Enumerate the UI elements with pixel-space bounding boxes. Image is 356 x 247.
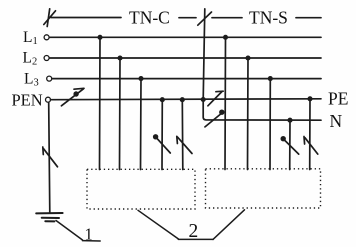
disconnect link symbol on N line (diagonal with dot) (205, 110, 225, 127)
switch mark with tick on PE drop (304, 137, 318, 155)
earth electrode (ground symbol) (36, 213, 62, 221)
wire: L1 phase bus (50, 36, 322, 38)
svg-text:L2: L2 (23, 50, 38, 68)
disconnect link symbol on PE line (diagonal with top tick) (208, 91, 223, 106)
consumer installation box 1 (TN-C, dotted) (87, 169, 195, 209)
wire: PEN earthing conductor down to earth electrode (49, 103, 50, 213)
wire: L1 drop to consumer 1 (TN-C) (99, 37, 102, 169)
junction dot PEN/drop2 (180, 97, 185, 102)
junction dot L3/drop1 (138, 76, 143, 81)
terminal L3 (47, 76, 52, 81)
wire: L1 drop to consumer 2 (TN-S) (224, 37, 227, 169)
leader line for label 2 (138, 210, 245, 240)
wire: L3 drop to consumer 2 (TN-S) (269, 79, 271, 170)
wire: L3 drop to consumer 1 (TN-C) (140, 79, 143, 170)
junction dot L2/drop1 (117, 55, 122, 60)
wire: top boundary line segment left of TN-C (51, 17, 121, 19)
boundary marker (left end of top line) (44, 9, 56, 27)
wire: L2 drop to consumer 1 (TN-C) (119, 58, 122, 170)
svg-text:L1: L1 (23, 29, 38, 47)
switch mark on earthing conductor (43, 147, 58, 167)
wire: L2 phase bus (50, 57, 322, 59)
svg-text:2: 2 (189, 221, 199, 242)
wire: PEN conductor continuing as PE to the right (51, 98, 322, 101)
junction dot L1/drop2 (223, 35, 228, 40)
junction dot L3/drop2 (268, 76, 273, 81)
wire: PE drop to consumer 2 (309, 99, 311, 170)
junction dot N/drop (287, 118, 292, 123)
junction dot PEN/drop (160, 97, 165, 102)
junction dot L1/drop1 (97, 35, 102, 40)
terminal L1 (44, 35, 49, 40)
consumer installation box 2 (TN-S, dotted) (206, 169, 321, 208)
svg-text:N: N (330, 111, 343, 131)
svg-text:PEN: PEN (12, 90, 43, 109)
junction dot PE/drop (307, 96, 312, 101)
svg-text:L3: L3 (24, 70, 39, 88)
wire: top boundary line between middle marker and TN-S (212, 17, 242, 19)
disconnect link symbol on PEN bus (diagonal, dot, top tick) (61, 88, 84, 106)
junction dot PEN split node (201, 97, 206, 102)
wire: N drop to consumer 2 (289, 120, 291, 169)
svg-text:PE: PE (328, 89, 348, 109)
wire: top boundary line between TN-C and middle marker (179, 17, 196, 19)
wire: N conductor (elbow from PEN split point) (203, 100, 321, 121)
boundary marker between TN-C and TN-S with vertical drop to PEN node (198, 9, 212, 100)
svg-text:1: 1 (85, 225, 93, 244)
switch mark with dot on N drop (281, 136, 299, 154)
wire: top boundary line right of TN-S (296, 17, 321, 19)
switch mark with tick on PEN drop 2 (177, 136, 192, 153)
switch mark with dot on PEN drop 1 (153, 134, 170, 153)
wire: PEN drop 2 to consumer 1 (181, 100, 184, 170)
terminal PEN (46, 97, 51, 102)
wire: PEN drop 1 to consumer 1 (161, 100, 163, 170)
wire: L2 drop to consumer 2 (TN-S) (247, 58, 250, 170)
junction dot L2/drop2 (245, 55, 250, 60)
svg-text:TN-C: TN-C (129, 8, 170, 28)
leader line for label 1 (56, 221, 100, 242)
wire: L3 phase bus (52, 78, 321, 80)
terminal L2 (44, 56, 49, 61)
svg-text:TN-S: TN-S (249, 8, 288, 28)
